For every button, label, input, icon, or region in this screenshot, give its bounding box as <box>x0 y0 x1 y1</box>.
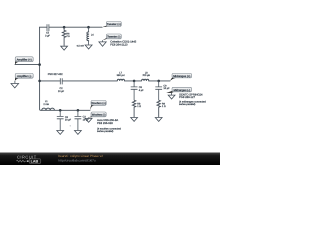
flag Midranges (+) <box>170 73 192 80</box>
svg-text:Tweeter (-): Tweeter (-) <box>107 36 120 39</box>
flag Woofers (-) <box>88 112 106 117</box>
capacitor C5 <box>45 24 50 37</box>
wire rail1 left segment <box>40 26 47 28</box>
svg-text:Woofers (+): Woofers (+) <box>91 102 105 105</box>
resistor R6 <box>62 27 70 46</box>
node rail2 branch1 <box>133 80 136 83</box>
resistor R8 <box>132 100 141 117</box>
flag Midranges (-) <box>166 87 191 93</box>
capacitor C3 <box>75 110 90 130</box>
svg-text:Amplifier (+): Amplifier (+) <box>17 58 32 61</box>
svg-text:series-parallel): series-parallel) <box>97 130 114 133</box>
node rail3 branchB <box>77 109 80 112</box>
svg-text:0.5 mH: 0.5 mH <box>77 44 84 47</box>
node rail3 branchA <box>59 109 62 112</box>
inductor L1 <box>42 100 55 110</box>
capacitor C9 <box>155 81 170 100</box>
svg-text:Tweeter (+): Tweeter (+) <box>107 23 121 26</box>
wire rail3 bottom <box>41 109 90 111</box>
svg-text:3 µF: 3 µF <box>45 34 50 37</box>
footer CircuitLab logo <box>16 154 41 163</box>
wire rail1 right segment <box>49 26 102 28</box>
svg-text:LAB: LAB <box>31 160 39 164</box>
svg-text:10 µF: 10 µF <box>65 119 72 122</box>
svg-text:580 µH: 580 µH <box>117 74 125 77</box>
flag Amplifier (-) <box>15 73 33 80</box>
stray mark <box>70 125 71 126</box>
flag Tweeter (+) <box>102 22 121 28</box>
flag Tweeter (-) <box>103 34 122 40</box>
comment midrange part <box>179 93 206 106</box>
inductor L7 <box>117 71 125 81</box>
flag Amplifier (+) <box>15 57 33 65</box>
flag Woofers (+) <box>90 101 106 111</box>
footer bar <box>0 153 220 166</box>
comment woofer part <box>97 119 122 133</box>
wire rail2 segment c <box>124 80 141 82</box>
svg-text:2 mH: 2 mH <box>43 103 49 106</box>
svg-text:700 µH: 700 µH <box>142 74 150 77</box>
svg-text:http:⁄⁄circuitlab.com⁄c91kl7u: http:⁄⁄circuitlab.com⁄c91kl7u <box>58 159 95 163</box>
svg-text:Amplifier (-): Amplifier (-) <box>17 75 31 78</box>
svg-text:1 Ω: 1 Ω <box>137 105 141 108</box>
capacitor C6 <box>57 110 72 130</box>
wire amplifier+ feed <box>15 64 40 66</box>
ground under C6 <box>57 131 64 135</box>
svg-text:PG8 289-127: PG8 289-127 <box>179 96 195 99</box>
node rail2 junction <box>38 80 41 83</box>
ground under L4 <box>85 45 92 49</box>
svg-text:PE8 264-2120: PE8 264-2120 <box>110 43 128 46</box>
svg-text:Midranges (+): Midranges (+) <box>173 75 190 78</box>
svg-text:L4: L4 <box>91 34 94 37</box>
svg-text:10 µF: 10 µF <box>163 87 170 90</box>
ground under Woofers (-) <box>85 117 92 122</box>
node rail1-R6 <box>63 26 66 29</box>
svg-text:PE8 296-628: PE8 296-628 <box>97 122 113 125</box>
svg-text:7.5: 7.5 <box>66 35 70 38</box>
svg-text:1 Ω: 1 Ω <box>162 105 166 108</box>
ground under C3 <box>75 131 82 135</box>
svg-text:4 µF: 4 µF <box>139 89 144 92</box>
ground under Tweeter (-) <box>99 40 106 46</box>
comment tweeter part <box>110 41 136 47</box>
svg-text:series-parallel): series-parallel) <box>179 103 196 106</box>
ground under Midranges (-) <box>168 93 175 99</box>
node rail1-L4 <box>87 26 90 29</box>
capacitor C2 <box>58 78 65 93</box>
ground under Amplifier (-) <box>11 81 19 88</box>
inductor L8 <box>142 71 151 81</box>
capacitor C8 <box>131 81 144 100</box>
ground under R8 <box>131 118 138 122</box>
ground under R9 <box>155 118 162 122</box>
node rail2 branch2 <box>157 80 160 83</box>
svg-text:Midranges (-): Midranges (-) <box>174 89 190 92</box>
ground under R6 <box>61 46 68 50</box>
svg-text:bearsti : coilynx Linear Phase: bearsti : coilynx Linear Phase v2 <box>58 154 103 158</box>
svg-text:PSR 827-632: PSR 827-632 <box>48 73 64 76</box>
svg-text:Woofers (-): Woofers (-) <box>92 114 106 117</box>
wire rail2 segment d <box>149 80 170 82</box>
inductor L4 <box>77 27 94 47</box>
svg-text:10 µF: 10 µF <box>58 90 65 93</box>
wire rail2 segment b <box>62 80 117 82</box>
wire rail2 segment a <box>40 80 61 82</box>
resistor R9 <box>157 100 166 117</box>
node amp+ junction <box>38 63 41 66</box>
wire main left vertical <box>40 27 42 110</box>
